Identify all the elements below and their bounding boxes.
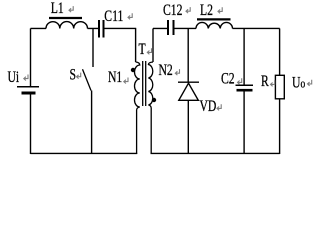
diode VD cathode bar	[178, 81, 199, 83]
inductor L2 humps	[196, 22, 233, 28]
label Ui	[8, 69, 20, 86]
return mark after T	[147, 48, 151, 54]
label C11	[104, 9, 123, 26]
capacitor C12 right plate	[173, 20, 175, 35]
return mark after VD	[217, 104, 221, 110]
capacitor C11 left plate	[98, 20, 100, 38]
resistor R box	[275, 75, 284, 99]
capacitor C12 left plate	[167, 20, 169, 35]
inductor L1 core bar	[49, 17, 82, 19]
label N2	[159, 62, 173, 79]
wire: bottom rail secondary side	[151, 152, 280, 154]
phase dot N1	[131, 68, 135, 72]
svg-text:C11: C11	[104, 9, 123, 26]
inductor L1 humps	[46, 22, 88, 29]
inductor L2 core bar	[197, 18, 231, 20]
wire: bottom rail primary side	[31, 152, 138, 154]
svg-text:T: T	[139, 41, 147, 58]
return mark after L2	[218, 7, 222, 13]
battery Ui long plate	[17, 86, 39, 88]
wire: rail between L1 and C11 (switch S junction)	[88, 27, 99, 29]
capacitor C2 thin plate	[236, 84, 254, 86]
transformer N2 top wire	[152, 28, 154, 62]
svg-text:C12: C12	[163, 2, 182, 19]
label T	[139, 41, 147, 58]
return mark after R	[271, 80, 275, 86]
return mark after C12	[186, 7, 190, 13]
capacitor C11 right plate	[103, 20, 105, 38]
transformer N1 top wire	[135, 28, 137, 62]
svg-text:L1: L1	[51, 0, 64, 17]
label R	[261, 73, 269, 90]
voltage source Ui branch wire top	[30, 28, 32, 86]
phase dot N2	[152, 98, 156, 102]
switch S bottom wire	[91, 91, 93, 155]
label VD	[200, 98, 217, 115]
return mark after Uo	[308, 80, 312, 86]
svg-text:L2: L2	[200, 2, 213, 19]
svg-text:N1: N1	[108, 69, 122, 86]
label L2	[200, 2, 213, 19]
switch S blade	[83, 69, 92, 90]
wire: rail from L2 to output corner	[233, 27, 280, 29]
transformer secondary winding N2	[148, 62, 153, 154]
svg-text:N2: N2	[159, 62, 173, 79]
return mark after L1	[69, 6, 73, 12]
return mark after S	[77, 73, 81, 79]
return mark after Ui	[24, 75, 28, 81]
svg-text:R: R	[261, 73, 269, 90]
switch S top wire	[92, 28, 94, 67]
battery Ui short thick plate	[22, 92, 36, 95]
return mark after N1	[124, 78, 128, 84]
voltage source Ui branch wire bottom	[30, 95, 32, 155]
capacitor C2 top wire	[243, 28, 245, 84]
svg-text:S: S	[70, 67, 77, 84]
return mark after N2	[175, 69, 179, 75]
return mark after C11	[128, 13, 132, 19]
capacitor C2 thick plate	[237, 89, 253, 92]
svg-text:C2: C2	[221, 71, 235, 88]
label C2	[221, 71, 235, 88]
label Uo	[292, 75, 305, 92]
label N1	[108, 69, 122, 86]
diode VD top wire	[187, 28, 189, 81]
wire: rail from C11 to transformer N1 top	[105, 27, 137, 29]
svg-text:Ui: Ui	[8, 69, 20, 86]
diode VD bottom wire	[187, 101, 189, 154]
label S	[70, 67, 77, 84]
label C12	[163, 2, 182, 19]
capacitor C2 bottom wire	[243, 92, 245, 155]
wire: top rail right from N2 to C12	[153, 27, 167, 29]
svg-text:Uo: Uo	[292, 75, 305, 92]
resistor R top wire	[279, 28, 281, 75]
return mark after C2	[238, 78, 242, 84]
transformer core line right	[145, 61, 147, 106]
resistor R bottom wire	[279, 99, 281, 154]
transformer core line left	[142, 61, 144, 106]
diode VD triangle	[179, 83, 199, 100]
wire: top rail left from Ui corner to L1	[31, 27, 47, 29]
label L1	[51, 0, 64, 17]
transformer primary winding N1	[135, 62, 140, 154]
svg-text:VD: VD	[200, 98, 217, 115]
wire: rail from C12 to L2 (VD junction)	[175, 27, 197, 29]
